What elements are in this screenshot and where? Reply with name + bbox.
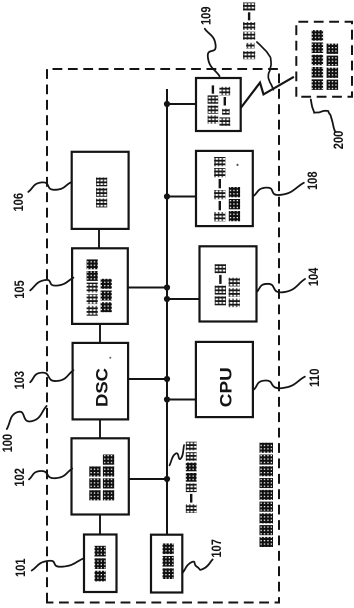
label 105	[12, 280, 27, 299]
junction dot to transmit/receive	[164, 476, 170, 482]
leader 101	[32, 558, 84, 570]
wire probe to transmit/receive	[99, 515, 101, 535]
leader 104	[257, 279, 306, 292]
main device dashed frame 100 (ultrasound diagnostic apparatus)	[47, 69, 279, 603]
leader 105	[30, 278, 73, 291]
block 108 overlay processing unit	[196, 151, 253, 226]
wire DSC to video control	[99, 324, 101, 343]
label 110	[307, 369, 322, 388]
network text label (nettowaku)	[243, 3, 255, 60]
svg-text:108: 108	[305, 171, 320, 190]
data transfer bus text leader	[170, 445, 185, 465]
block 103 DSC	[73, 343, 129, 420]
label 106	[11, 193, 26, 212]
leader 102	[29, 469, 72, 480]
leader 100	[7, 406, 47, 429]
block 106 monitor	[72, 152, 129, 229]
svg-text:CPU: CPU	[218, 367, 236, 407]
svg-text:110: 110	[307, 369, 322, 388]
label 200	[331, 131, 346, 150]
svg-text:102: 102	[12, 468, 27, 487]
network link zigzag bolt	[241, 77, 294, 108]
data transfer bus text label	[186, 442, 197, 513]
label 103	[12, 371, 27, 390]
leader 107	[182, 560, 212, 574]
display device label text (ultrasound image display device)	[312, 30, 339, 90]
wire transmit/receive to DSC	[99, 419, 101, 438]
wire video control to monitor	[98, 229, 100, 248]
svg-text:101: 101	[13, 558, 28, 577]
leader 106	[28, 182, 70, 192]
wire video control to bus	[128, 287, 167, 289]
junction dot to video control	[164, 284, 170, 290]
leader 108	[253, 183, 303, 196]
block 105 video signal control unit	[72, 248, 128, 324]
junction dot to overlay	[164, 193, 170, 199]
junction dot to CPU	[164, 396, 170, 402]
wire transmit/receive to bus	[129, 478, 167, 480]
svg-text:106: 106	[11, 193, 26, 212]
label 100	[0, 434, 15, 453]
leader 103	[30, 370, 73, 382]
block 101 probe (tanshokushi)	[84, 535, 117, 593]
block 104 frame memory	[200, 246, 257, 321]
label 101	[13, 558, 28, 577]
data transfer bus wire	[166, 89, 168, 535]
svg-text:DSC: DSC	[94, 368, 112, 407]
svg-text:105: 105	[12, 280, 27, 299]
network text leader	[257, 42, 274, 90]
svg-text:104: 104	[306, 267, 321, 286]
svg-text:107: 107	[209, 539, 224, 558]
wire bus to CPU	[167, 399, 196, 401]
svg-text:109: 109	[199, 7, 214, 26]
junction dot to frame memory	[164, 296, 170, 302]
leader 109	[205, 29, 220, 76]
junction dot to interface	[164, 101, 170, 107]
label 104	[306, 267, 321, 286]
wire bus to interface	[167, 103, 196, 105]
wire bus to overlay	[167, 196, 196, 198]
wire bus to frame memory	[167, 298, 200, 300]
svg-text:200: 200	[331, 131, 346, 150]
speck near overlay block	[236, 164, 238, 166]
leader 110	[254, 377, 305, 390]
junction dot to DSC	[164, 376, 170, 382]
block 110 CPU	[196, 342, 253, 417]
wire DSC to bus	[128, 378, 167, 380]
main frame label text (ultrasound image diagnostic apparatus)	[260, 443, 274, 547]
svg-text:103: 103	[12, 371, 27, 390]
block 102 ultrasound transmit/receive unit	[72, 438, 129, 514]
label 109	[199, 7, 214, 26]
svg-text:100: 100	[0, 434, 15, 453]
label 102	[12, 468, 27, 487]
label 108	[305, 171, 320, 190]
block 109 interface	[196, 78, 241, 131]
label 107	[209, 539, 224, 558]
speck inside DSC block	[109, 357, 111, 359]
display device dashed frame 200 (ultrasound image display)	[296, 22, 352, 97]
leader 200	[311, 100, 336, 132]
block 107 operation console (sousataku)	[151, 535, 182, 593]
